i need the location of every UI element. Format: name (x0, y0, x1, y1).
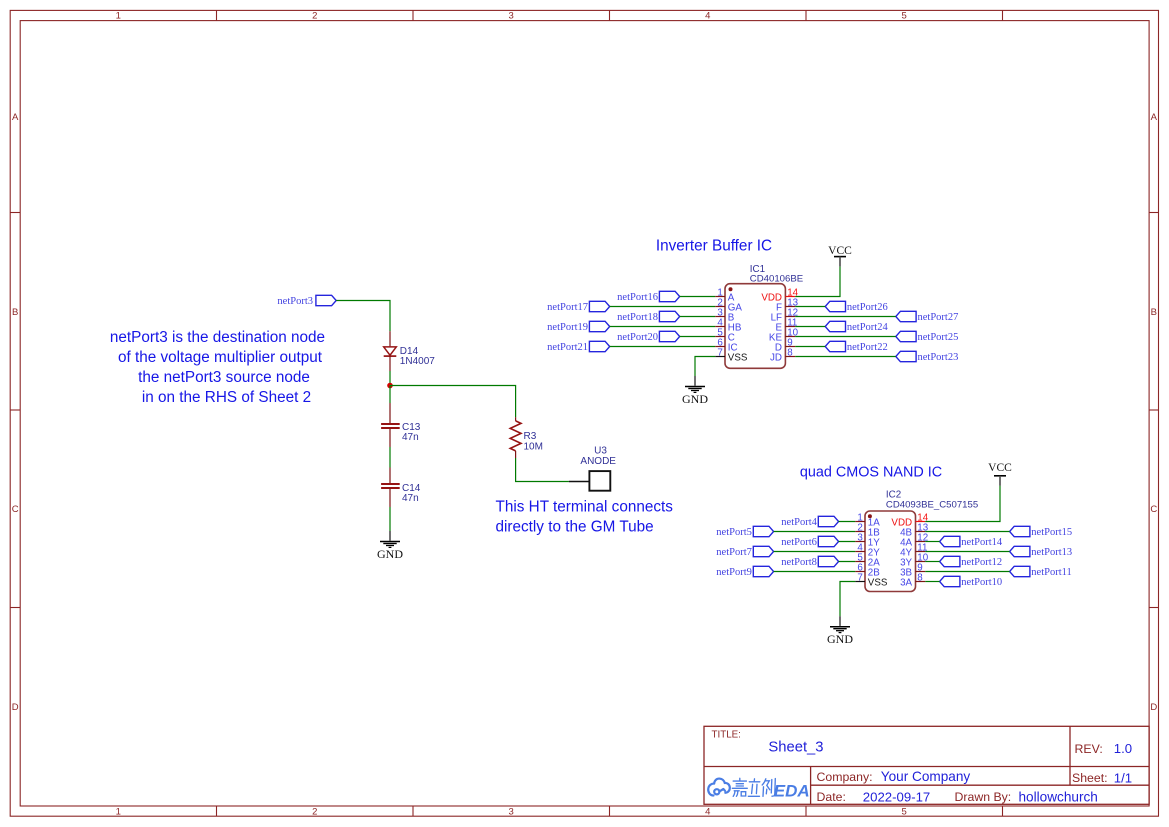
svg-text:netPort22: netPort22 (847, 342, 888, 353)
svg-text:8: 8 (917, 572, 923, 583)
port netPort8 (781, 556, 838, 568)
pin 11 E (IC1) (775, 317, 797, 333)
port netPort27 (896, 311, 959, 323)
wire netPort7 to IC2 (774, 551, 856, 553)
wire netPort18 to IC1 (680, 316, 716, 318)
wire netPort11 to IC2 (925, 571, 1009, 573)
port netPort11 (1010, 566, 1072, 578)
wire netPort27 to IC1 (795, 316, 896, 318)
svg-text:1: 1 (116, 807, 121, 818)
wire netPort4 to IC2 (839, 521, 856, 523)
wire netPort5 to IC2 (774, 531, 856, 533)
terminal U3 ANODE (569, 446, 616, 491)
pin 4 2Y (IC2) (855, 542, 880, 558)
svg-text:7: 7 (857, 572, 862, 583)
svg-text:netPort5: netPort5 (716, 527, 752, 538)
svg-text:5: 5 (902, 807, 907, 818)
pin 5 2A (IC2) (855, 552, 880, 568)
pin 9 3B (IC2) (900, 562, 925, 578)
pin 7 VSS (IC2) (855, 572, 888, 588)
wire netPort19 to IC1 (610, 326, 716, 328)
svg-text:netPort9: netPort9 (716, 567, 752, 578)
resistor R3 10M (510, 417, 543, 458)
power VCC (IC2) (988, 462, 1012, 486)
ground (IC1) (682, 376, 708, 406)
svg-text:1/1: 1/1 (1114, 770, 1132, 785)
port netPort12 (940, 556, 1003, 568)
wire netPort21 to IC1 (610, 346, 716, 348)
wire netPort22 to IC1 (795, 346, 825, 348)
wire netPort9 to IC2 (774, 571, 856, 573)
pin 6 2B (IC2) (855, 562, 880, 578)
pin 12 4A (IC2) (900, 532, 928, 548)
svg-text:3: 3 (509, 807, 514, 818)
svg-text:3A: 3A (900, 578, 912, 589)
svg-text:Date:: Date: (817, 790, 846, 804)
svg-text:Your Company: Your Company (881, 769, 971, 784)
port netPort20 (617, 331, 680, 343)
svg-text:netPort16: netPort16 (617, 292, 658, 303)
port netPort3 (277, 295, 336, 307)
port netPort16 (617, 291, 680, 303)
svg-text:C: C (12, 504, 19, 515)
port netPort25 (896, 331, 959, 343)
svg-text:netPort13: netPort13 (1031, 547, 1072, 558)
port netPort6 (781, 536, 838, 548)
wire netPort26 to IC1 (795, 306, 825, 308)
svg-text:VCC: VCC (988, 462, 1012, 474)
wire C13 to C14 (389, 447, 391, 468)
svg-text:in on the RHS of Sheet 2: in on the RHS of Sheet 2 (142, 389, 311, 406)
svg-text:netPort19: netPort19 (547, 322, 588, 333)
wire netPort14 to IC2 (925, 541, 939, 543)
capacitor C14 47n (381, 468, 421, 508)
wire netPort17 to IC1 (610, 306, 716, 308)
svg-text:4: 4 (705, 807, 710, 818)
port netPort24 (825, 321, 888, 333)
wire VCC to IC2 pin 14 (925, 486, 1000, 522)
note: HT terminal text (496, 499, 674, 536)
pin 3 B (IC1) (715, 307, 735, 323)
port netPort22 (825, 341, 888, 353)
svg-text:7: 7 (717, 347, 722, 358)
title block (704, 726, 1149, 804)
svg-text:VCC: VCC (828, 245, 852, 257)
svg-text:2022-09-17: 2022-09-17 (863, 789, 930, 804)
svg-text:hollowchurch: hollowchurch (1019, 789, 1098, 804)
svg-text:netPort11: netPort11 (1031, 567, 1071, 578)
svg-text:CD4093BE_C507155: CD4093BE_C507155 (886, 499, 978, 510)
svg-text:netPort25: netPort25 (918, 332, 959, 343)
EasyEDA logo (708, 779, 730, 796)
svg-text:TITLE:: TITLE: (712, 729, 741, 740)
svg-text:VSS: VSS (728, 353, 748, 364)
pin 7 VSS (IC1) (715, 347, 748, 363)
note: netPort3 description text (110, 329, 325, 406)
svg-text:netPort7: netPort7 (716, 547, 752, 558)
svg-text:47n: 47n (402, 432, 419, 443)
port netPort23 (896, 351, 959, 363)
svg-text:netPort17: netPort17 (547, 302, 588, 313)
svg-text:This HT terminal connects: This HT terminal connects (496, 499, 674, 516)
svg-text:netPort10: netPort10 (961, 577, 1002, 588)
port netPort9 (716, 566, 773, 578)
pin 13 F (IC1) (776, 297, 799, 313)
wire netPort10 to IC2 (925, 581, 939, 583)
pin 8 3A (IC2) (900, 572, 925, 588)
svg-text:C: C (1150, 504, 1157, 515)
pin 4 HB (IC1) (715, 317, 742, 333)
wire junction to R3 (390, 386, 516, 418)
svg-text:JD: JD (770, 353, 782, 364)
wire netPort13 to IC2 (925, 551, 1009, 553)
svg-text:3: 3 (509, 11, 514, 22)
svg-text:netPort3 is the destination no: netPort3 is the destination node (110, 329, 325, 346)
svg-text:5: 5 (902, 11, 907, 22)
svg-text:CD40106BE: CD40106BE (750, 274, 803, 285)
ground below C14 (377, 531, 403, 561)
svg-text:netPort6: netPort6 (781, 537, 817, 548)
port netPort19 (547, 321, 610, 333)
svg-text:GND: GND (827, 632, 853, 646)
port netPort4 (781, 516, 838, 528)
svg-text:1: 1 (116, 11, 121, 22)
port netPort5 (716, 526, 773, 538)
svg-text:10M: 10M (524, 441, 543, 452)
svg-text:Sheet_3: Sheet_3 (768, 739, 823, 755)
wire netPort6 to IC2 (839, 541, 856, 543)
pin 9 D (IC1) (775, 337, 795, 353)
pin 2 GA (IC1) (715, 297, 742, 313)
wire IC1 pin 7 to ground (695, 357, 715, 377)
wire netPort20 to IC1 (680, 336, 716, 338)
port netPort10 (940, 576, 1003, 588)
pin 12 LF (IC1) (771, 307, 799, 323)
svg-text:netPort24: netPort24 (847, 322, 889, 333)
wire netPort12 to IC2 (925, 561, 939, 563)
svg-text:netPort20: netPort20 (617, 332, 658, 343)
pin 10 3Y (IC2) (900, 552, 929, 568)
svg-text:netPort14: netPort14 (961, 537, 1003, 548)
pin 11 4Y (IC2) (900, 542, 927, 558)
pin 3 1Y (IC2) (855, 532, 880, 548)
svg-text:GND: GND (682, 392, 708, 406)
wire netPort24 to IC1 (795, 326, 825, 328)
svg-text:B: B (1151, 307, 1157, 318)
svg-text:Drawn By:: Drawn By: (955, 790, 1012, 804)
svg-text:netPort27: netPort27 (918, 312, 959, 323)
svg-text:B: B (12, 307, 18, 318)
pin 6 IC (IC1) (715, 337, 737, 353)
svg-text:D: D (1150, 702, 1157, 713)
capacitor C13 47n (381, 403, 421, 447)
wire junction to C13 (389, 386, 391, 404)
svg-text:netPort8: netPort8 (781, 557, 817, 568)
op-amp/IC body IC1 CD40106BE (725, 264, 803, 369)
svg-text:Inverter Buffer IC: Inverter Buffer IC (656, 238, 772, 255)
port netPort14 (940, 536, 1003, 548)
port netPort18 (617, 311, 680, 323)
pin 8 JD (IC1) (770, 347, 795, 363)
wire diode to junction (389, 371, 391, 386)
junction node dot (387, 383, 393, 389)
svg-text:Sheet:: Sheet: (1072, 771, 1108, 785)
svg-text:netPort12: netPort12 (961, 557, 1002, 568)
port netPort26 (825, 301, 888, 313)
svg-text:netPort15: netPort15 (1031, 527, 1072, 538)
wire VCC to IC1 pin 14 (795, 267, 840, 297)
svg-text:2: 2 (312, 11, 317, 22)
wire netPort25 to IC1 (795, 336, 896, 338)
wire netPort8 to IC2 (839, 561, 856, 563)
svg-text:2: 2 (312, 807, 317, 818)
wire C14 to ground (389, 507, 391, 531)
pin 1 A (IC1) (715, 287, 735, 303)
pin 10 KE (IC1) (769, 327, 799, 343)
pin 14 VDD (IC2) (891, 512, 928, 528)
wire IC2 pin 7 to ground (840, 582, 855, 617)
pin 2 1B (IC2) (855, 522, 880, 538)
wire netPort15 to IC2 (925, 531, 1009, 533)
wire netPort3 to diode D14 (336, 301, 390, 332)
svg-text:netPort18: netPort18 (617, 312, 658, 323)
power VCC (IC1) (828, 245, 852, 267)
svg-text:A: A (12, 112, 19, 123)
svg-text:netPort26: netPort26 (847, 302, 888, 313)
svg-text:ANODE: ANODE (580, 456, 616, 467)
svg-text:A: A (1151, 112, 1158, 123)
pin 14 VDD (IC1) (761, 287, 798, 303)
wire netPort23 to IC1 (795, 356, 896, 358)
wire R3 to U3 (516, 458, 569, 482)
port netPort13 (1010, 546, 1073, 558)
op-amp/IC body IC2 CD4093BE_C507155 (865, 490, 978, 592)
svg-text:quad CMOS NAND IC: quad CMOS NAND IC (800, 464, 942, 480)
svg-text:netPort21: netPort21 (547, 342, 588, 353)
port netPort17 (547, 301, 610, 313)
svg-text:1.0: 1.0 (1114, 741, 1132, 756)
svg-text:of the voltage multiplier outp: of the voltage multiplier output (118, 349, 323, 366)
svg-text:VSS: VSS (868, 578, 888, 589)
svg-text:1N4007: 1N4007 (400, 356, 435, 367)
port netPort21 (547, 341, 610, 353)
svg-text:D: D (12, 702, 19, 713)
diode D14 1N4007 (384, 331, 436, 371)
pin 1 1A (IC2) (855, 512, 880, 528)
svg-text:GND: GND (377, 547, 403, 561)
svg-text:8: 8 (787, 347, 793, 358)
svg-text:4: 4 (705, 11, 710, 22)
port netPort15 (1010, 526, 1073, 538)
svg-text:REV:: REV: (1075, 742, 1103, 756)
port netPort7 (716, 546, 773, 558)
wire netPort16 to IC1 (680, 296, 716, 298)
svg-text:directly to the GM Tube: directly to the GM Tube (496, 519, 654, 536)
svg-text:netPort23: netPort23 (918, 352, 959, 363)
svg-text:netPort4: netPort4 (781, 517, 817, 528)
ground (IC2) (827, 616, 853, 646)
svg-text:netPort3: netPort3 (277, 296, 313, 307)
svg-text:EDA: EDA (774, 781, 810, 800)
pin 5 C (IC1) (715, 327, 735, 343)
svg-text:Company:: Company: (817, 770, 873, 784)
pin 13 4B (IC2) (900, 522, 929, 538)
svg-text:the netPort3 source node: the netPort3 source node (138, 369, 310, 386)
svg-text:47n: 47n (402, 493, 419, 504)
